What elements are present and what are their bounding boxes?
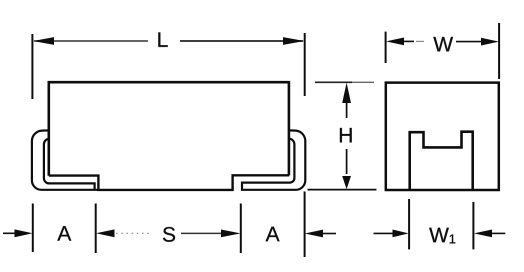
terminal lead (end view): [410, 132, 473, 190]
terminal lead right (side view): [242, 130, 305, 189]
dimension W1: [374, 199, 506, 249]
dimension H: [308, 82, 377, 189]
capacitor body (end view): [386, 83, 499, 190]
label W1: [429, 228, 449, 242]
arrow W1 outside-right: [492, 232, 505, 234]
arrow H up: [346, 99, 348, 118]
arrow H down: [346, 149, 348, 174]
arrowhead W right: [481, 38, 499, 46]
arrow A1 outside-left: [3, 232, 16, 234]
terminal lead left (side view): [32, 130, 99, 189]
capacitor body (side view): [49, 82, 289, 190]
reference line H bottom (seating plane): [308, 189, 377, 191]
label L: [158, 32, 167, 46]
arrow S right: [221, 230, 241, 238]
dimensions A, S, A: [3, 192, 336, 258]
dimension W: [386, 23, 500, 79]
reference line H top: [315, 81, 352, 83]
arrowhead L left: [33, 37, 54, 45]
label A right: [266, 227, 280, 241]
extension line A1 left: [32, 204, 34, 253]
extension line A2 right: [304, 192, 306, 258]
dimension line S left (faint dotted): [116, 232, 152, 234]
dimension line S right: [181, 232, 221, 234]
extension line L right: [304, 33, 306, 96]
dimension L: [32, 32, 304, 99]
arrow S left: [96, 229, 115, 237]
extension line W1 right: [472, 202, 474, 249]
label A left: [57, 226, 71, 240]
label H: [340, 128, 352, 142]
dimension line L left segment: [34, 40, 148, 42]
label S: [163, 227, 175, 242]
extension line L left: [31, 34, 33, 99]
dimension line W right segment: [456, 41, 482, 43]
extension line S/A2 boundary: [240, 204, 242, 254]
label W: [433, 37, 453, 51]
arrowhead W left: [386, 38, 404, 46]
extension line W left: [385, 32, 387, 63]
extension line W right: [498, 23, 500, 79]
dimension line W left segment: [404, 40, 414, 42]
extension line W1 left: [408, 199, 410, 249]
arrow A2 outside-right: [305, 230, 323, 238]
arrow W1 outside-left: [374, 232, 394, 234]
dimension line L right segment: [180, 40, 303, 42]
arrowhead L right: [283, 37, 304, 45]
extension line A1/S boundary: [95, 204, 97, 254]
